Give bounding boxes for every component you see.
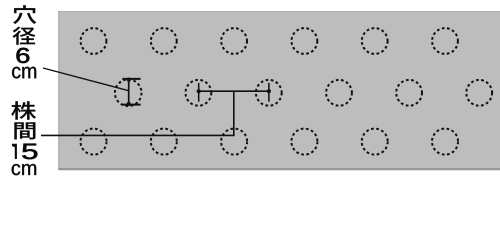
planting hole circle bottom row #2	[151, 129, 177, 155]
planting hole circle top row #6	[432, 28, 458, 54]
diameter dim bottom bar	[122, 104, 140, 106]
planting hole circle bottom row #3	[221, 129, 247, 155]
sheet left edge	[58, 11, 59, 170]
sheet top edge	[58, 11, 500, 12]
leader line from 6cm label	[43, 68, 129, 91]
spacing dimension line	[199, 90, 269, 92]
diameter dim top dot	[127, 78, 131, 82]
planting hole circle middle row #2	[186, 80, 212, 106]
planting hole circle top row #4	[292, 28, 318, 54]
planting hole circle top row #5	[362, 28, 388, 54]
planting hole circle middle row #1	[115, 80, 142, 107]
unit cm (bottom)	[12, 164, 36, 175]
kanji 株 (plant)	[11, 101, 36, 119]
planting hole circle top row #1	[81, 28, 107, 54]
leader line from 15cm label	[41, 134, 235, 136]
sheet bottom edge	[58, 168, 500, 170]
planting hole circle bottom row #6	[432, 129, 458, 155]
spacing dim right dot	[267, 89, 271, 93]
digit 1	[12, 144, 17, 159]
planting hole circle middle row #4	[326, 80, 352, 106]
spacing dim left tick	[198, 83, 200, 102]
kanji 間 (spacing)	[14, 122, 35, 139]
spacing dim left dot	[197, 89, 201, 93]
hole diameter dimension: vertical line	[128, 79, 130, 105]
unit cm (top)	[12, 67, 36, 79]
planting hole circle top row #3	[221, 28, 247, 54]
digit 6	[17, 48, 30, 63]
planting hole circle middle row #6	[466, 80, 492, 106]
planting hole circle top row #2	[151, 28, 177, 54]
drop line from spacing dim	[233, 91, 235, 135]
planting hole circle middle row #5	[396, 80, 422, 106]
digit 5	[22, 144, 37, 160]
diameter dim top bar	[122, 78, 140, 80]
kanji 穴 (hole)	[13, 5, 36, 24]
planting hole circle bottom row #5	[362, 129, 388, 155]
planting hole circle middle row #3	[256, 80, 282, 106]
kanji 径 (diameter)	[13, 27, 36, 45]
spacing dim right tick	[268, 83, 270, 102]
diameter dim bottom dot	[127, 102, 131, 106]
mulch sheet	[58, 11, 500, 170]
planting hole circle bottom row #1	[81, 129, 107, 155]
planting hole circle bottom row #4	[291, 129, 317, 155]
